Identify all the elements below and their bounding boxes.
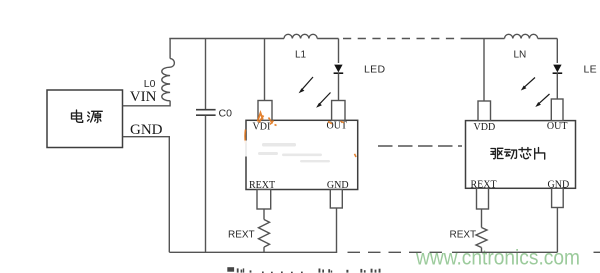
wire LED1 branch from rail xyxy=(338,39,340,64)
ground rail solid (right section) xyxy=(452,251,557,253)
wire top rail dashed segment xyxy=(343,38,468,40)
label 驱动芯片 (driver chip) xyxy=(491,148,545,160)
wire LEDN branch from rail xyxy=(556,39,558,64)
svg-text:L1: L1 xyxy=(295,50,307,61)
wire VDD feed chip U1 xyxy=(264,39,266,101)
wire top rail to LEDN branch xyxy=(538,38,558,40)
svg-text:REXT: REXT xyxy=(249,180,275,191)
svg-text:REXT: REXT xyxy=(228,230,255,241)
inductor L0 xyxy=(162,59,175,101)
svg-text:VDI: VDI xyxy=(253,122,271,133)
dashed wire between U1 and UN (mid) xyxy=(378,145,462,147)
svg-text:GND: GND xyxy=(548,180,570,191)
LED DN xyxy=(553,65,563,74)
driver chip UN box xyxy=(466,121,576,189)
wire VIN from power box to L0 xyxy=(123,101,170,106)
inductor LN xyxy=(505,34,538,38)
wire L0 to top rail xyxy=(169,39,171,59)
ground rail dashed section xyxy=(348,251,447,253)
capacitor C0 xyxy=(196,110,216,116)
caption text tops (cut off at bottom edge) xyxy=(227,267,380,273)
LED D1 emission arrow 2 xyxy=(316,93,330,108)
pin REXT UN xyxy=(477,188,489,209)
svg-text:REXT: REXT xyxy=(450,230,477,241)
capacitor C0 top lead xyxy=(205,39,207,110)
svg-text:VDD: VDD xyxy=(474,122,496,133)
svg-text:REXT: REXT xyxy=(471,180,497,191)
LED D1 emission arrow 1 xyxy=(299,77,313,93)
svg-text:C0: C0 xyxy=(219,108,233,120)
resistor REXT (UN) lead xyxy=(481,209,483,228)
pin GND U1 xyxy=(330,190,342,209)
wire VDD feed chip UN xyxy=(483,39,485,102)
pin VDD UN xyxy=(478,101,491,121)
svg-text:GND: GND xyxy=(327,180,349,191)
resistor REXT (UN) xyxy=(476,228,487,248)
pin VDD U1 xyxy=(258,101,272,121)
pin OUT UN xyxy=(551,99,563,121)
svg-text:www.cntronics.com: www.cntronics.com xyxy=(415,247,580,270)
svg-text:GND: GND xyxy=(130,122,163,138)
wire GND pin U1 to ground rail xyxy=(336,208,338,252)
driver chip U1 box xyxy=(246,120,358,189)
resistor REXT (UN) bottom lead xyxy=(481,248,483,253)
resistor REXT (U1) bottom lead xyxy=(263,247,265,252)
resistor REXT (U1) xyxy=(259,220,270,248)
svg-text:LE: LE xyxy=(584,64,597,76)
orange watermark remnant marks on U1 xyxy=(245,113,356,157)
wire LEDN to OUT pin xyxy=(556,73,558,99)
erased watermark white patch over U1 left border xyxy=(244,141,247,157)
power supply box 电源 xyxy=(47,90,123,148)
svg-text:VIN: VIN xyxy=(130,89,157,105)
pin OUT U1 xyxy=(332,101,345,121)
capacitor C0 bottom lead xyxy=(205,116,207,253)
svg-text:L0: L0 xyxy=(144,78,156,90)
pin REXT U1 xyxy=(257,190,271,210)
faint erased watermark smudge inside U1 xyxy=(258,143,330,162)
label 电源 (power source) xyxy=(72,110,103,123)
ground rail dash at right edge xyxy=(594,251,600,253)
svg-text:LED: LED xyxy=(364,64,385,76)
wire top rail after L1 xyxy=(317,38,338,40)
svg-text:OUT: OUT xyxy=(547,121,568,132)
ground rail solid (left section) xyxy=(169,251,337,253)
resistor REXT (U1) lead xyxy=(263,209,265,220)
svg-text:LN: LN xyxy=(514,50,527,61)
wire top rail solid left segment xyxy=(169,38,284,40)
wire LED1 to OUT pin xyxy=(338,73,340,100)
pin GND UN xyxy=(552,188,564,207)
LED D1 xyxy=(334,65,344,74)
wire GND from power box xyxy=(123,137,170,253)
wire GND pin UN to ground rail xyxy=(556,208,558,253)
inductor L1 xyxy=(284,34,317,38)
wire top rail solid right segment xyxy=(468,38,505,40)
LED DN emission arrow 2 xyxy=(535,94,549,107)
LED DN emission arrow 1 xyxy=(521,78,535,91)
